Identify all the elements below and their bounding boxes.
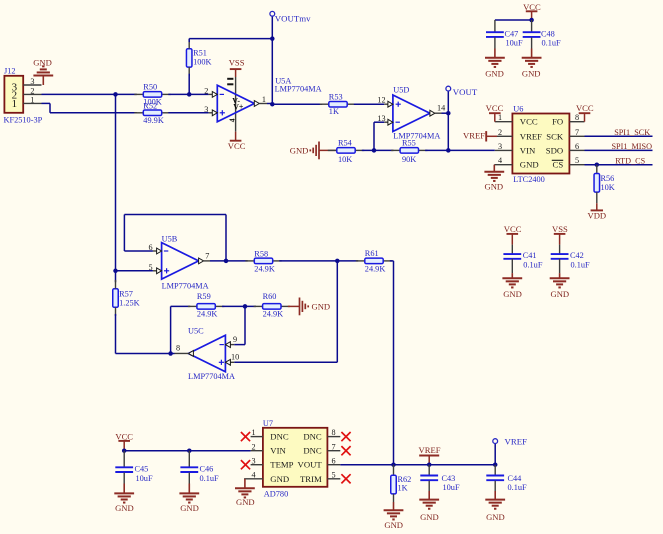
svg-text:DNC: DNC — [303, 446, 322, 456]
svg-text:DNC: DNC — [303, 432, 322, 442]
svg-text:C45: C45 — [135, 464, 149, 473]
wire junction337 down to U5C pin10 — [234, 261, 337, 362]
svg-text:2: 2 — [30, 86, 34, 95]
svg-text:U5B: U5B — [162, 235, 178, 244]
resistor R60 24.9K — [254, 292, 290, 319]
no-connect X at U7 pin8 — [341, 432, 350, 441]
U6 pin 4 GND — [494, 156, 512, 165]
svg-text:C48: C48 — [541, 29, 555, 38]
resistor R58 24.9K — [245, 249, 281, 273]
wire vertical trunk x=115.5 down to R57 — [115, 94, 117, 282]
svg-text:SPI1_MISO: SPI1_MISO — [612, 142, 653, 151]
svg-text:LMP7704MA: LMP7704MA — [188, 372, 235, 381]
power VCC at U6 pin1 — [486, 103, 504, 122]
U6 pin 5 CS — [569, 156, 584, 165]
J12 pin 1 — [23, 95, 41, 104]
wire C47 rail — [495, 19, 532, 21]
capacitor C44 0.1uF — [486, 465, 527, 493]
ground GND at C46 — [179, 484, 199, 513]
svg-text:10K: 10K — [601, 183, 615, 192]
svg-text:24.9K: 24.9K — [365, 265, 386, 274]
U6 pin 6 SDO — [569, 142, 584, 151]
capacitor C43 10uF — [420, 465, 460, 493]
junction at 337.3,260.9 — [335, 259, 340, 264]
U7 pin 6 VOUT — [327, 456, 340, 465]
U6 pin 2 VREF — [497, 128, 512, 137]
resistor R55 90K — [391, 138, 427, 164]
junction at 272.3,38.6 — [270, 36, 275, 41]
svg-text:VSS: VSS — [229, 57, 245, 67]
resistor R50 100K — [134, 82, 170, 106]
svg-text:0.1uF: 0.1uF — [542, 38, 562, 47]
U5D pin 14 output — [430, 103, 445, 116]
svg-text:KF2510-3P: KF2510-3P — [4, 115, 43, 124]
svg-text:2: 2 — [252, 442, 256, 451]
svg-text:2: 2 — [204, 86, 208, 95]
wire feedback horizontal — [189, 38, 272, 40]
svg-text:1: 1 — [262, 95, 266, 104]
connector J12 KF2510-3P — [4, 67, 43, 125]
svg-text:VOUT: VOUT — [298, 460, 323, 470]
op-amp U5D LMP7704MA — [393, 85, 440, 140]
svg-text:100K: 100K — [193, 58, 211, 67]
svg-text:VCC: VCC — [523, 2, 541, 12]
wire U5D output to VOUT net — [442, 112, 449, 114]
svg-text:3: 3 — [498, 142, 502, 151]
junction at 124.2,450.7 — [122, 448, 127, 453]
U7 pin 5 TRIM — [327, 470, 340, 479]
wire U5B feedback loop — [124, 215, 226, 261]
svg-text:C41: C41 — [523, 251, 537, 260]
wire R55 to U6 VIN — [425, 149, 495, 151]
junction at 393.5 on VREF rail — [391, 462, 396, 467]
junction at 272.3,104.2 — [270, 102, 275, 107]
svg-text:GND: GND — [180, 503, 199, 513]
svg-text:8: 8 — [176, 343, 180, 352]
U5A pin 3 non-inverting input — [204, 105, 225, 116]
svg-text:GND: GND — [486, 512, 505, 522]
svg-text:GND: GND — [236, 497, 255, 507]
wire J12 pin1 route to R52 — [42, 103, 137, 112]
resistor R51 100K — [186, 41, 211, 77]
wire VOUTmv vertical — [271, 16, 273, 104]
power VREF at U6 pin2 — [463, 131, 497, 142]
junction at 226,260.9 — [224, 259, 229, 264]
svg-text:R59: R59 — [197, 292, 211, 301]
svg-text:5: 5 — [575, 156, 579, 165]
ground GND at C48 — [522, 49, 542, 79]
svg-text:1K: 1K — [329, 107, 339, 116]
svg-text:GND: GND — [270, 474, 289, 484]
svg-text:10uF: 10uF — [506, 38, 523, 47]
op-amp U5A LMP7704MA — [217, 77, 321, 132]
ground GND at R60 — [288, 298, 330, 316]
U6 pin 8 FO — [569, 113, 584, 122]
svg-text:VCC: VCC — [576, 103, 594, 113]
svg-text:2: 2 — [498, 128, 502, 137]
svg-text:R57: R57 — [119, 290, 133, 299]
junction at 448.3,150.4 — [446, 148, 451, 153]
junction at 115.5,270.8 — [113, 269, 118, 274]
svg-text:SDO: SDO — [546, 145, 563, 155]
power VCC at C41 — [504, 224, 522, 244]
svg-text:7: 7 — [575, 128, 579, 137]
U5A pin 2 inverting input — [204, 86, 224, 97]
wire R51 bottom to pin2 net — [188, 74, 190, 95]
svg-text:FO: FO — [552, 117, 563, 127]
junction at 596.8 on CS wire — [595, 162, 600, 167]
wire VOUT vertical — [447, 91, 449, 150]
J12 pin 3 — [23, 77, 41, 86]
no-connect X at U7 pin1 — [241, 432, 250, 441]
ground GND at C43 — [419, 491, 439, 522]
svg-text:GND: GND — [520, 160, 539, 170]
IC U6 LTC2400 — [512, 105, 569, 185]
svg-text:R51: R51 — [193, 49, 207, 58]
wire J12 pin2 to R50 — [42, 93, 137, 95]
U7 pin 3 TEMP — [251, 456, 263, 465]
power VDD below R56 — [587, 203, 606, 220]
node VOUTmv — [270, 11, 311, 23]
svg-text:GND: GND — [550, 289, 569, 299]
node VOUT — [446, 86, 478, 97]
power VSS at C42 — [552, 224, 568, 244]
svg-text:49.9K: 49.9K — [143, 116, 164, 125]
ground GND at C41 — [502, 273, 522, 299]
U7 pin 2 VIN — [251, 442, 263, 451]
svg-text:C43: C43 — [442, 474, 456, 483]
junction at 531.6,20 — [529, 18, 534, 23]
svg-text:SPI1_SCK: SPI1_SCK — [614, 128, 650, 137]
resistor R52 49.9K — [134, 101, 170, 125]
U5B pin 7 output — [199, 251, 210, 263]
svg-text:C46: C46 — [200, 464, 214, 473]
resistor R53 1K — [320, 92, 356, 116]
svg-text:U5C: U5C — [188, 327, 204, 336]
svg-text:10K: 10K — [338, 155, 352, 164]
svg-text:VREF: VREF — [419, 445, 441, 455]
svg-text:J12: J12 — [4, 67, 16, 76]
svg-text:12: 12 — [377, 96, 385, 105]
ground GND at U6 pin4 — [484, 165, 504, 192]
svg-text:8: 8 — [331, 428, 335, 437]
wire R51 top to feedback — [188, 39, 190, 43]
svg-text:10uF: 10uF — [136, 474, 153, 483]
svg-text:VCC: VCC — [228, 141, 246, 151]
ground GND at U7 pin4 — [235, 479, 255, 507]
node VREF — [493, 436, 527, 446]
svg-text:R60: R60 — [263, 292, 277, 301]
wire U5B output to R58 — [210, 260, 248, 262]
U7 pin 1 DNC — [251, 428, 263, 437]
ground GND at C45 — [114, 484, 134, 513]
svg-text:0.1uF: 0.1uF — [571, 261, 591, 270]
svg-text:GND: GND — [33, 57, 52, 67]
wire U7 VOUT to VREF net — [340, 464, 495, 466]
power VCC at U6 pin8 — [576, 103, 594, 122]
U6 pin 1 — [495, 113, 513, 122]
svg-text:CS: CS — [553, 160, 564, 170]
svg-text:0.1uF: 0.1uF — [523, 261, 543, 270]
svg-text:VCC: VCC — [520, 117, 538, 127]
svg-text:TRIM: TRIM — [300, 474, 322, 484]
ground GND at R54 — [290, 142, 337, 160]
svg-text:10: 10 — [231, 353, 239, 362]
ground GND at C47 — [485, 49, 505, 79]
wire U5A output to junction — [267, 103, 272, 106]
svg-text:VDD: VDD — [587, 210, 606, 220]
svg-text:6: 6 — [331, 456, 335, 465]
svg-text:DNC: DNC — [270, 432, 289, 442]
U6 pin 7 SCK — [569, 128, 584, 137]
capacitor C47 10uF — [486, 20, 523, 49]
junction at 245,306.4 — [243, 304, 248, 309]
power VCC at C45 — [115, 431, 133, 450]
junction at 495.2 on VREF rail — [493, 462, 498, 467]
svg-text:VREF: VREF — [520, 131, 542, 141]
svg-text:U5D: U5D — [393, 85, 409, 94]
svg-text:R50: R50 — [143, 82, 157, 91]
no-connect X at U7 pin3 — [241, 460, 250, 469]
svg-text:1: 1 — [498, 113, 502, 122]
wire U5A out to R53 — [272, 103, 322, 105]
svg-text:24.9K: 24.9K — [263, 310, 284, 319]
svg-text:0.1uF: 0.1uF — [200, 474, 220, 483]
svg-text:GND: GND — [312, 302, 331, 312]
U5B pin 5 non-inverting input — [149, 263, 170, 274]
wire R59 to R60 — [222, 305, 256, 307]
op-amp U5C LMP7704MA — [188, 327, 235, 381]
svg-text:R58: R58 — [254, 249, 268, 258]
capacitor C45 10uF — [115, 451, 153, 484]
svg-text:3: 3 — [30, 77, 34, 86]
power VREF at C43 — [419, 445, 441, 465]
U7 pin 8 DNC — [327, 428, 340, 437]
wire RTD_CS — [585, 156, 653, 165]
svg-text:VREF: VREF — [463, 131, 485, 141]
svg-text:4: 4 — [252, 470, 256, 479]
svg-text:TEMP: TEMP — [270, 460, 293, 470]
svg-text:VOUTmv: VOUTmv — [275, 13, 311, 23]
U5D pin 13 inverting input — [377, 114, 399, 125]
svg-text:4: 4 — [498, 156, 502, 165]
svg-text:5: 5 — [331, 470, 335, 479]
U5C pin 10 non-inverting input — [219, 353, 239, 366]
svg-text:24.9K: 24.9K — [197, 310, 218, 319]
svg-text:C42: C42 — [570, 251, 584, 260]
resistor R54 10K — [328, 138, 364, 164]
svg-text:VCC: VCC — [486, 103, 504, 113]
svg-text:1: 1 — [252, 428, 256, 437]
svg-text:4: 4 — [227, 118, 236, 122]
U6 pin 3 VIN — [495, 142, 513, 151]
ground GND at J12 pin 3 — [33, 57, 53, 85]
junction at 115.5,94.4 — [113, 92, 118, 97]
svg-text:1: 1 — [12, 98, 18, 110]
svg-text:VOUT: VOUT — [453, 87, 478, 97]
svg-text:1.25K: 1.25K — [119, 299, 140, 308]
svg-text:VIN: VIN — [520, 145, 536, 155]
wire R59 branch — [171, 306, 191, 353]
wire junction245 to U5C pin9 — [234, 306, 245, 344]
svg-text:R53: R53 — [329, 92, 343, 101]
U5D pin 12 non-inverting input — [377, 96, 400, 108]
svg-text:1: 1 — [30, 95, 34, 104]
power VCC at C47/C48 — [523, 2, 541, 20]
U5C pin 8 output — [175, 343, 194, 356]
U5C pin 9 inverting input — [220, 335, 238, 348]
svg-text:GND: GND — [384, 520, 403, 530]
ground GND at C44 — [485, 491, 505, 522]
svg-text:10uF: 10uF — [443, 483, 460, 492]
wire U5D pin13 to R54/R55 junction — [374, 122, 384, 150]
power VCC at U5A — [228, 132, 246, 152]
resistor R56 10K — [594, 165, 615, 204]
svg-text:6: 6 — [575, 142, 579, 151]
svg-text:7: 7 — [205, 251, 209, 260]
svg-text:GND: GND — [503, 289, 522, 299]
svg-text:VCC: VCC — [115, 431, 133, 441]
U7 pin 4 GND — [244, 470, 263, 479]
junction at 189.3,450.7 — [187, 448, 192, 453]
op-amp U5B LMP7704MA — [162, 235, 209, 291]
wire R61 right corner down — [390, 261, 394, 465]
resistor R57 1.25K — [113, 280, 140, 316]
svg-text:24.9K: 24.9K — [254, 265, 275, 274]
svg-text:3: 3 — [252, 456, 256, 465]
no-connect X at U7 pin7 — [341, 446, 350, 455]
svg-text:VIN: VIN — [270, 446, 286, 456]
wire pin2net to U5B pin5 — [116, 270, 153, 272]
J12 pin 2 — [23, 86, 41, 95]
wire R54 to junction — [362, 149, 394, 151]
svg-text:3: 3 — [204, 105, 208, 114]
svg-text:R56: R56 — [601, 174, 615, 183]
svg-text:V+: V+ — [233, 103, 244, 112]
svg-text:LMP7704MA: LMP7704MA — [162, 281, 209, 290]
svg-text:14: 14 — [437, 103, 445, 112]
svg-text:R52: R52 — [143, 101, 157, 110]
svg-text:U7: U7 — [263, 419, 273, 428]
svg-text:9: 9 — [233, 335, 237, 344]
svg-text:VCC: VCC — [504, 224, 522, 234]
resistor R59 24.9K — [188, 292, 224, 319]
svg-text:U6: U6 — [513, 105, 523, 114]
ground GND at C42 — [550, 273, 570, 299]
capacitor C48 0.1uF — [523, 20, 561, 49]
svg-text:1K: 1K — [398, 484, 408, 493]
svg-text:LMP7704MA: LMP7704MA — [393, 131, 440, 140]
svg-text:R55: R55 — [402, 138, 416, 147]
svg-text:90K: 90K — [402, 155, 416, 164]
svg-text:GND: GND — [290, 146, 309, 156]
U5B pin 6 inverting input — [149, 243, 169, 254]
svg-text:GND: GND — [115, 503, 134, 513]
svg-text:VSS: VSS — [552, 224, 568, 234]
svg-text:GND: GND — [522, 69, 541, 79]
wire SPI1_SCK — [585, 128, 653, 137]
junction at 429.2 on VREF rail — [427, 462, 432, 467]
U5A pin 1 output — [254, 95, 267, 107]
svg-text:GND: GND — [484, 181, 503, 191]
U7 pin 7 DNC — [327, 442, 340, 451]
svg-text:7: 7 — [331, 442, 335, 451]
svg-text:R61: R61 — [365, 249, 379, 258]
svg-text:AD780: AD780 — [264, 489, 288, 498]
svg-text:RTD_CS: RTD_CS — [615, 156, 645, 165]
wire R53 to U5D pin12 — [354, 103, 384, 105]
capacitor C42 0.1uF — [551, 245, 590, 274]
junction at 374,150.4 — [372, 148, 377, 153]
svg-text:0.1uF: 0.1uF — [508, 483, 528, 492]
svg-text:SCK: SCK — [546, 131, 564, 141]
wire R52 to U5A pin3 — [168, 112, 208, 114]
wire R57 bottom to U5C out net — [116, 314, 175, 354]
svg-text:8: 8 — [575, 113, 579, 122]
no-connect X at U7 pin5 — [341, 474, 350, 483]
svg-text:C47: C47 — [505, 29, 519, 38]
wire R50 to U5A pin2 — [168, 93, 208, 95]
power VSS at U5A — [229, 57, 245, 77]
svg-text:VREF: VREF — [505, 436, 528, 446]
capacitor C46 0.1uF — [180, 451, 219, 484]
svg-text:GND: GND — [420, 512, 439, 522]
svg-text:R54: R54 — [338, 138, 353, 147]
resistor R62 1K — [391, 465, 412, 502]
wire VREF node vertical — [494, 444, 496, 465]
resistor R61 24.9K — [356, 249, 392, 273]
wire VCC rail to U7 VIN — [124, 450, 250, 452]
junction at 448.3,113.2 — [446, 111, 451, 116]
ground GND at R62 — [384, 502, 404, 530]
svg-text:LTC2400: LTC2400 — [513, 175, 545, 184]
svg-text:LMP7704MA: LMP7704MA — [275, 85, 322, 94]
junction at 170.6,353.5 — [168, 351, 173, 356]
capacitor C41 0.1uF — [503, 245, 542, 274]
wire R58 to R61 — [279, 260, 358, 262]
wire SPI1_MISO — [585, 142, 653, 151]
svg-text:GND: GND — [485, 69, 504, 79]
IC U7 AD780 — [263, 419, 328, 499]
svg-text:C44: C44 — [508, 474, 523, 483]
junction at 189.2,94.4 — [187, 92, 192, 97]
